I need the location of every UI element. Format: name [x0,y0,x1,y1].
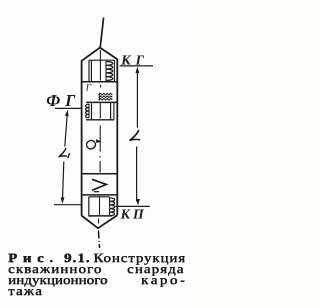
svg-text:КП: КП [120,207,147,222]
svg-text:КГ: КГ [120,52,149,67]
svg-text:ФГ: ФГ [46,91,80,110]
svg-text:Г: Г [85,83,92,93]
